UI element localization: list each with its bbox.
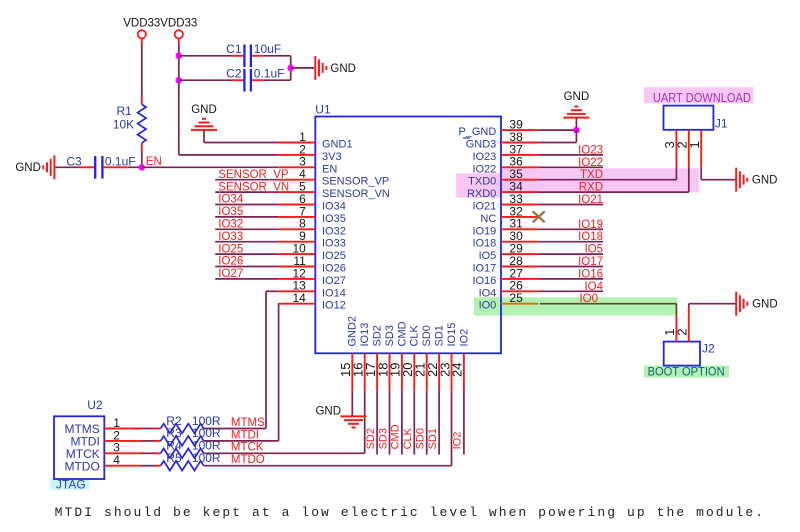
power flag VDD33 #1 [123,18,160,45]
net label IO21 [578,194,603,206]
U1 pin 4 (SENSOR_VP) [278,167,389,188]
svg-text:SD3: SD3 [384,325,396,346]
U2 pin 2 (MTDI) [70,428,141,448]
U1 pin 8 (IO32) [278,217,346,238]
wire net IO17 [538,266,603,268]
wire J1 pin 1 to GND [701,167,736,180]
svg-text:C3: C3 [66,154,82,168]
svg-text:IO33: IO33 [322,238,346,250]
U1 pin 6 (IO34) [278,192,346,213]
ground GND at U1 pin 15 [315,406,366,428]
U1 pin 9 (IO33) [278,229,346,250]
svg-text:VDD33: VDD33 [160,18,197,30]
svg-text:IO19: IO19 [578,219,603,231]
wire net IO16 [538,278,603,280]
resistor R2 100R [155,414,221,434]
svg-text:0.1uF: 0.1uF [105,154,136,168]
wire GND to U1 pin 1 [204,130,278,143]
U1 pin 13 (IO14) [278,279,346,300]
wire P_GND pin 39 to GND [538,118,576,131]
net label IO25 [218,243,243,255]
J2 pin 2 [675,307,690,342]
label UART DOWNLOAD [653,91,751,105]
U1 pin 26 (IO4) [479,279,539,300]
wire VDD33#2 rail to 3V3 [179,45,278,155]
U1 pin 7 (IO35) [278,204,346,225]
U1 pin 27 (IO16) [472,266,538,287]
svg-text:J2: J2 [702,342,715,356]
capacitor C2 [226,67,284,92]
net label SD1 [427,428,439,449]
U1 pin 32 (NC) [480,204,538,225]
wire net IO2 [463,391,465,455]
svg-text:SD1: SD1 [427,428,439,449]
wire C2 to junction column [263,79,290,81]
capacitor C3 [66,154,135,178]
svg-text:IO21: IO21 [578,194,603,206]
U1 pin 3 (EN) [278,155,337,176]
svg-text:2: 2 [675,329,690,336]
net label SD0 [415,428,427,449]
svg-text:TXD0: TXD0 [468,176,496,188]
no-connect X on U1 pin 32 [533,211,545,222]
svg-text:JTAG: JTAG [56,478,86,492]
net label IO33 [218,231,243,243]
svg-text:IO14: IO14 [322,287,346,299]
wire net IO18 [538,241,603,243]
U1 pin 17 (SD2) [363,325,384,390]
svg-text:IO2: IO2 [458,329,470,347]
net label IO17 [578,256,603,268]
label JTAG [56,478,86,492]
wire net IO22 [538,166,603,168]
wire net SD1 [438,391,440,455]
wire net SENSOR_VP [215,179,278,181]
U1 pin 33 (IO21) [472,192,538,213]
ground GND at J2 [736,292,777,316]
svg-text:SD1: SD1 [434,325,446,346]
U1 pin 28 (IO17) [472,254,538,275]
svg-text:IO23: IO23 [472,151,496,163]
wire MTCK to U1 pin 16 (IO13) [204,391,365,454]
junction VDD rail / C2 [176,77,183,84]
svg-text:IO26: IO26 [218,256,243,268]
svg-text:CLK: CLK [402,427,414,449]
net label EN [146,156,162,168]
svg-text:IO4: IO4 [584,281,603,293]
wire net SENSOR_VN [215,191,278,193]
U1 pin 16 (IO13) [351,323,372,391]
net label IO34 [218,194,244,206]
net label IO2 [452,432,464,450]
svg-text:CMD: CMD [390,424,402,449]
svg-text:IO22: IO22 [472,163,496,175]
U1 pin 22 (SD1) [425,325,446,390]
svg-text:C1: C1 [226,42,242,56]
connector U2 [54,398,104,479]
U1 pin 25 (IO0) [479,291,539,312]
svg-text:GND2: GND2 [347,316,359,347]
svg-text:IO5: IO5 [479,250,497,262]
U1 pin 11 (IO26) [278,254,346,275]
svg-text:IO15: IO15 [446,323,458,347]
net label IO32 [218,219,243,231]
net label IO27 [218,268,243,280]
svg-text:SENSOR_VP: SENSOR_VP [322,176,389,188]
svg-text:IO34: IO34 [322,201,346,213]
highlight UART DOWNLOAD box [644,87,754,103]
wire net IO32 [215,228,278,230]
J1 pin 3 [662,130,677,167]
svg-text:U2: U2 [87,398,103,412]
svg-text:IO27: IO27 [322,275,346,287]
highlight IO0 wire band [474,297,678,315]
U1 pin 12 (IO27) [278,266,346,287]
junction C1/C2 to ground [287,65,294,72]
U1 pin 18 (SD3) [375,325,396,390]
U1 pin 15 (GND2) [338,316,359,391]
wire junction to GND [291,67,315,69]
wire VDD33#1 to R1 [141,45,143,96]
svg-text:VDD33: VDD33 [123,18,160,30]
svg-text:GND1: GND1 [322,139,353,151]
net label SD2 [365,428,377,449]
svg-text:0.1uF: 0.1uF [254,67,285,81]
wire net IO19 [538,228,603,230]
U2 pin 1 (MTMS) [64,416,141,436]
resistor R5 100R [155,451,221,471]
svg-text:IO0: IO0 [579,293,598,305]
svg-text:GND: GND [752,299,778,311]
svg-text:IO32: IO32 [322,225,346,237]
highlight BOOT OPTION box [644,366,729,378]
svg-text:GND: GND [315,406,341,418]
net label IO16 [578,268,603,280]
svg-text:EN: EN [146,156,162,168]
svg-text:IO32: IO32 [218,219,243,231]
U1 pin 29 (IO5) [479,242,539,263]
wire net CMD [401,391,403,455]
svg-text:IO22: IO22 [578,157,603,169]
svg-text:IO35: IO35 [218,206,243,218]
power flag VDD33 #2 [160,18,197,45]
wire net IO34 [215,204,278,206]
svg-text:IO17: IO17 [578,256,603,268]
svg-text:R5: R5 [166,451,182,465]
wire net IO33 [215,241,278,243]
svg-text:24: 24 [450,363,465,377]
wire U2 pin 1 to R2 [142,428,155,430]
net label IO23 [578,144,603,156]
svg-text:RXD0: RXD0 [467,188,496,200]
wire net SD0 [426,391,428,455]
net label RXD [579,182,603,194]
resistor R1 [113,96,146,153]
wire MTDO to U1 pin 23 (IO15) [204,391,452,466]
svg-text:NC: NC [480,213,496,225]
U1 pin 35 (TXD0) [468,167,538,188]
svg-text:25: 25 [509,291,523,305]
wire U2 pin 3 to R4 [142,452,155,454]
IC U1 body [315,103,501,354]
svg-text:SD2: SD2 [372,325,384,346]
svg-text:SD0: SD0 [415,428,427,449]
junction pin 39/38 ground [573,127,580,134]
net label MTDI [231,429,259,441]
net label IO4 [584,281,603,293]
svg-text:GND3: GND3 [466,139,497,151]
U1 pin 39 (P_GND) [458,118,538,139]
svg-text:IO26: IO26 [322,263,346,275]
ground GND at U1 pin 1 [191,104,217,130]
ground GND near C1/C2 [315,56,356,80]
svg-text:IO18: IO18 [472,238,496,250]
svg-text:GND: GND [752,175,778,187]
svg-text:IO18: IO18 [578,231,603,243]
svg-text:IO12: IO12 [322,300,346,312]
svg-text:MTDI: MTDI [231,429,259,441]
svg-text:GND: GND [191,104,217,116]
resistor R4 100R [155,439,221,459]
highlight TXD0/RXD0 pin names [456,173,501,197]
svg-text:SD2: SD2 [365,428,377,449]
wire net CLK [413,391,415,455]
svg-text:IO13: IO13 [359,323,371,347]
svg-text:10K: 10K [113,118,134,132]
junction EN node [139,164,146,171]
net label TXD [580,169,603,181]
svg-text:IO17: IO17 [472,263,496,275]
svg-text:J1: J1 [715,117,728,131]
wire rail to C1 [179,55,232,57]
svg-text:IO34: IO34 [218,194,244,206]
U1 pin 34 (RXD0) [467,180,538,201]
svg-text:IO35: IO35 [322,213,346,225]
svg-text:U1: U1 [315,103,331,117]
wire rail to C2 [179,79,232,81]
svg-text:IO27: IO27 [218,268,243,280]
wire U1 pin 13 (IO14) to MTMS [204,291,278,428]
svg-text:MTDO: MTDO [64,459,99,473]
svg-text:SD0: SD0 [421,325,433,346]
label BOOT OPTION [648,365,725,379]
U1 pin 2 (3V3) [278,142,341,163]
svg-text:IO4: IO4 [479,287,497,299]
U1 pin 5 (SENSOR_VN) [278,180,390,201]
U1 pin 37 (IO23) [472,142,538,163]
svg-text:IO33: IO33 [218,231,243,243]
wire GND to C3 [55,166,78,168]
svg-text:IO16: IO16 [578,268,603,280]
wire GND3 pin 38 to ground node [538,130,576,142]
svg-text:3V3: 3V3 [322,151,342,163]
wire EN node to U1 pin 3 [142,166,278,168]
svg-text:MTCK: MTCK [231,442,264,454]
wire net IO5 [538,253,603,255]
U1 pin 14 (IO12) [278,291,346,312]
U1 pin 21 (SD0) [413,325,434,390]
wire net RXD to J1 pin 2 [538,167,689,192]
ground GND at C3 [15,155,54,179]
net label IO18 [578,231,603,243]
svg-text:100R: 100R [192,451,221,465]
wire net SD3 [389,391,391,455]
svg-text:IO25: IO25 [322,250,346,262]
U1 pin 24 (IO2) [450,329,471,391]
resistor R3 100R [155,426,221,446]
wire net IO35 [215,216,278,218]
svg-text:R1: R1 [116,104,132,118]
net label CMD [390,424,402,449]
U1 pin 38 (GND3) [466,130,538,151]
wire net IO21 [538,204,603,206]
highlight JTAG box [50,479,89,490]
svg-text:IO2: IO2 [452,432,464,450]
svg-text:C2: C2 [226,67,242,81]
svg-text:IO5: IO5 [584,244,603,256]
wire U1 pin 14 (IO12) to MTDI [204,304,279,441]
svg-text:TXD: TXD [580,169,603,181]
J2 pin 1 [662,316,677,342]
svg-text:MTMS: MTMS [231,417,265,429]
svg-text:10uF: 10uF [254,42,281,56]
svg-text:EN: EN [322,163,337,175]
ground GND above pin 39 [563,91,589,117]
net label SENSOR_VN [218,181,289,193]
svg-text:GND: GND [564,91,590,103]
wire net IO23 [538,154,603,156]
junction VDD rail / C1 [176,53,183,60]
J1 pin 2 [675,130,690,167]
svg-text:P_GND: P_GND [458,126,496,138]
svg-text:IO23: IO23 [578,144,603,156]
svg-text:GND: GND [15,162,41,174]
svg-text:RXD: RXD [579,182,603,194]
svg-text:4: 4 [113,453,120,467]
net label IO5 [584,244,603,256]
net label MTDO [231,454,265,466]
connector J1 [664,106,728,131]
ground GND at J1 [736,168,777,192]
net label CLK [402,427,414,449]
wire U2 pin 4 to R5 [142,465,155,467]
wire net IO4 [538,290,603,292]
net label IO0 [579,293,598,305]
svg-text:IO0: IO0 [479,300,497,312]
svg-text:SD3: SD3 [377,428,389,449]
U1 pin 30 (IO18) [472,229,538,250]
U1 pin 23 (IO15) [437,323,458,391]
overline on GND3 pin name [463,137,470,139]
U2 pin 4 (MTDO) [64,453,141,473]
wire J2 pin 2 to GND [689,304,736,307]
net label IO22 [578,157,603,169]
wire net TXD to J1 pin 3 [538,167,676,180]
net label IO19 [578,219,603,231]
connector J2 [664,342,715,366]
net label IO35 [218,206,243,218]
J1 pin 1 [687,130,702,167]
wire net IO26 [215,266,278,268]
wire net SD2 [376,391,378,455]
wire net IO0 to J2 pin 1 [540,304,676,316]
wire R1 to EN node [141,152,143,167]
net label MTMS [231,417,265,429]
wire U2 pin 2 to R3 [142,440,155,442]
U1 pin 1 (GND1) [278,130,352,151]
svg-text:1: 1 [687,141,702,148]
wire net IO27 [215,278,278,280]
svg-text:MTDO: MTDO [231,454,265,466]
wire net IO25 [215,253,278,255]
U1 pin 19 (CMD) [388,321,409,390]
wire pin 15 to GND [351,391,353,417]
U1 pin 31 (IO19) [472,217,538,238]
svg-text:IO21: IO21 [472,201,496,213]
caption note [55,505,763,520]
wire C3 to EN node [128,166,142,168]
net label SENSOR_VP [218,169,289,181]
svg-text:GND: GND [330,63,356,75]
U1 pin 10 (IO25) [278,242,346,263]
U1 pin 36 (IO22) [472,155,538,176]
svg-text:SENSOR_VN: SENSOR_VN [322,188,390,200]
svg-text:IO16: IO16 [472,275,496,287]
capacitor C1 [226,42,281,67]
U1 pin 20 (CLK) [400,324,421,390]
svg-text:14: 14 [292,291,306,305]
highlight TXD/RXD wires band [502,168,699,192]
svg-text:CMD: CMD [396,321,408,346]
net label SD3 [377,428,389,449]
svg-text:IO19: IO19 [472,225,496,237]
wire C1 to junction column [263,56,290,80]
svg-text:IO25: IO25 [218,243,243,255]
net label IO26 [218,256,243,268]
U2 pin 3 (MTCK) [66,441,142,461]
svg-text:BOOT OPTION: BOOT OPTION [648,365,725,379]
net label MTCK [231,442,264,454]
svg-text:CLK: CLK [409,324,421,346]
svg-text:UART DOWNLOAD: UART DOWNLOAD [653,91,751,105]
